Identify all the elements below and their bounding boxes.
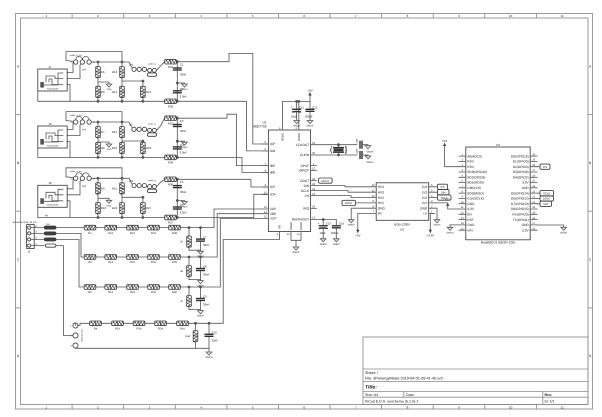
svg-text:solder_jp_3w: solder_jp_3w (70, 54, 82, 57)
svg-text:R22: R22 (112, 206, 118, 210)
svg-text:BOB-12009: BOB-12009 (394, 222, 410, 226)
svg-text:Title:: Title: (365, 385, 377, 391)
svg-text:R15: R15 (112, 130, 118, 134)
svg-text:R39: R39 (172, 261, 177, 264)
svg-text:13: 13 (264, 206, 267, 209)
svg-text:VBP: VBP (270, 212, 276, 216)
svg-text:DIN: DIN (441, 190, 446, 194)
solder jumper JP7 (132, 127, 147, 131)
svg-text:GND: GND (107, 88, 112, 91)
svg-text:ICP: ICP (270, 185, 275, 189)
svg-text:R27: R27 (146, 206, 152, 210)
svg-text:DIN: DIN (543, 202, 548, 206)
svg-text:8: 8 (407, 14, 409, 18)
svg-text:1: 1 (70, 325, 72, 328)
svg-text:VCP: VCP (270, 217, 277, 221)
junction dots ladder row2 (188, 256, 191, 259)
wire U3 left gnd (450, 225, 459, 227)
connector J2 screw terminal (27, 225, 35, 249)
svg-text:C13: C13 (326, 222, 332, 226)
gnda ladder row3 (197, 311, 204, 318)
capacitor C15 22pF (360, 141, 362, 149)
svg-text:DOUT: DOUT (543, 197, 551, 201)
svg-text:3.3nF: 3.3nF (180, 151, 187, 155)
connector J6 (38, 185, 67, 207)
svg-text:21: 21 (312, 193, 315, 196)
svg-text:20: 20 (312, 152, 315, 155)
wire CS U1 to U2 (317, 196, 371, 198)
svg-text:RSV: RSV (467, 160, 474, 164)
resistor R27 (141, 203, 146, 215)
resistor R13 (105, 285, 117, 290)
svg-text:IRQ: IRQ (303, 207, 309, 211)
solder jumper JP6 (74, 173, 92, 181)
wire bead3 to ladder row3 (56, 239, 84, 287)
svg-text:R32: R32 (168, 121, 174, 125)
resistor R41 (177, 321, 189, 326)
svg-text:3: 3 (70, 345, 72, 348)
gnda under C12 (309, 112, 311, 120)
svg-text:AGND: AGND (289, 222, 293, 230)
svg-text:33nF: 33nF (203, 303, 210, 307)
svg-text:C5: C5 (180, 180, 184, 184)
svg-text:R1: R1 (88, 232, 92, 235)
ic U1 bottom pins VN AGND DGND (277, 232, 301, 237)
resistor R44 (193, 331, 198, 343)
resistor R25 (141, 86, 146, 98)
svg-text:2: 2 (97, 14, 99, 18)
svg-text:AudioJack3: AudioJack3 (47, 144, 59, 147)
border column ticks and numbers top/bottom (72, 14, 536, 410)
svg-text:4: 4 (277, 233, 279, 236)
svg-text:D0(GPIO16): D0(GPIO16) (511, 154, 529, 158)
gnd arrow block1 (106, 84, 112, 91)
wire block3 jumper link (136, 186, 148, 187)
wire DVDD drop (298, 101, 300, 126)
net tag DOUT at U1 (319, 178, 333, 183)
wire block2 filter cap column (176, 118, 178, 141)
svg-text:HV3: HV3 (378, 190, 384, 194)
svg-text:16MHz: 16MHz (345, 145, 348, 153)
svg-text:11: 11 (561, 14, 564, 18)
wire block1 jack sleeve to rail (37, 91, 39, 101)
solder jumper JP2 (74, 56, 92, 64)
junction dots ladder row1 (188, 226, 191, 229)
resistor R15 (120, 127, 125, 139)
svg-text:solder_jp_3w: solder_jp_3w (70, 114, 82, 117)
svg-text:A0(ADC0): A0(ADC0) (467, 154, 482, 158)
svg-text:24: 24 (312, 178, 315, 181)
svg-text:VN: VN (278, 225, 282, 229)
svg-text:2: 2 (70, 335, 72, 338)
ic U2 BOB-12009 body (376, 183, 429, 221)
svg-text:R37: R37 (168, 221, 174, 225)
svg-text:RST: RST (467, 218, 473, 222)
net tag CS at U3 (537, 166, 540, 168)
svg-text:R2: R2 (88, 261, 92, 264)
svg-text:Size: A4: Size: A4 (365, 393, 378, 397)
resistor R2 (84, 255, 96, 260)
svg-text:DGND: DGND (299, 222, 303, 230)
wire ladder row1 to gnda (189, 247, 201, 250)
svg-text:CS: CS (441, 185, 445, 189)
resistor R31 (165, 59, 177, 64)
svg-text:J2: J2 (28, 249, 31, 253)
wire block1 gnda tap (177, 83, 184, 84)
resistor R8 (96, 142, 101, 154)
gnda right below U3 (560, 227, 567, 234)
wire block3 top rail (89, 178, 132, 183)
svg-text:C7: C7 (203, 235, 207, 239)
net tag DIN at U3 (537, 203, 540, 205)
gnda under C14 (333, 239, 340, 246)
wire IAN net from block1 bottom (177, 101, 268, 151)
svg-text:GND: GND (107, 204, 112, 207)
svg-text:LV2: LV2 (422, 196, 428, 200)
svg-text:R4: R4 (94, 328, 98, 331)
wire block2 jumper link (136, 129, 148, 130)
wire SCLK U1 to U2 (317, 191, 371, 193)
gnda ladder row2 (197, 281, 204, 288)
svg-text:J5: J5 (48, 122, 52, 126)
svg-text:R40: R40 (172, 291, 177, 294)
svg-text:DOUT: DOUT (321, 179, 329, 183)
svg-text:10: 10 (509, 14, 513, 18)
gnda block2 (181, 142, 188, 149)
svg-text:Rev:: Rev: (545, 393, 553, 397)
ic U3 right pins (511, 153, 537, 232)
wire block3 jumper JP loop (66, 168, 122, 179)
svg-text:C10: C10 (212, 331, 218, 335)
wire VCP to ladder row3 (220, 219, 262, 288)
wire neutral row4 (75, 324, 77, 326)
wire C14 stem (335, 220, 337, 226)
svg-text:AudioJack3: AudioJack3 (47, 204, 59, 207)
svg-text:File: 3PenergyMeter-2019-04-01: File: 3PenergyMeter-2019-04-01-09-41-40.… (365, 377, 443, 381)
junction dots ladder row3 (188, 286, 191, 289)
svg-text:R22: R22 (130, 261, 135, 264)
wire block3 gnda tap (177, 201, 184, 202)
capacitor C12 (306, 109, 315, 111)
svg-text:3: 3 (93, 177, 95, 180)
gnda under C11 (296, 112, 298, 120)
svg-text:10: 10 (264, 192, 267, 195)
svg-text:100nF: 100nF (305, 115, 313, 119)
svg-text:19: 19 (312, 142, 315, 145)
svg-text:SCLK: SCLK (543, 191, 550, 195)
resistor R10 (96, 203, 101, 215)
svg-text:GND: GND (522, 186, 530, 190)
svg-text:HV4: HV4 (378, 185, 384, 189)
svg-text:+: + (291, 105, 293, 109)
wire C13 stem (322, 220, 324, 226)
ferrite bead FB3 (44, 238, 56, 241)
svg-text:JP8: JP8 (129, 180, 134, 183)
resistor R22 (120, 203, 125, 215)
svg-text:+3V3: +3V3 (443, 198, 450, 202)
wire U2 LV1 to +3V3 node (435, 202, 448, 204)
svg-text:CLKOUT: CLKOUT (296, 143, 309, 147)
ic U3 NodeMCU body (466, 147, 530, 240)
net tag DIN at U2 (438, 190, 450, 195)
svg-text:6: 6 (303, 14, 305, 18)
resistor R13 (120, 67, 125, 79)
wire C13 to gnda (322, 229, 324, 239)
gnd arrow block3 (106, 200, 112, 207)
ic U1 ADE7758 body (268, 130, 310, 232)
wire bead2 to ladder row2 (56, 233, 84, 257)
svg-text:R31: R31 (151, 232, 156, 235)
resistor R7 (96, 127, 101, 139)
wire +5V rail above U1 (283, 93, 311, 127)
svg-text:AVDD: AVDD (281, 133, 285, 141)
svg-text:3.3V: 3.3V (467, 207, 474, 211)
svg-text:JP6: JP6 (82, 185, 87, 188)
wire IBN net from block2 bottom (177, 157, 268, 172)
svg-text:CMD(CS): CMD(CS) (467, 186, 481, 190)
svg-text:GNDA: GNDA (367, 161, 374, 164)
svg-text:C: C (589, 258, 592, 262)
wire C8 column (200, 257, 202, 269)
svg-text:R25: R25 (146, 90, 152, 94)
svg-text:APCF: APCF (301, 164, 310, 168)
capacitor C2 (173, 91, 182, 93)
svg-text:R26: R26 (146, 146, 152, 150)
power +3.3V under U2 (426, 230, 434, 238)
wire block1 divider mid taps (98, 82, 109, 84)
svg-text:VARCF: VARCF (299, 169, 310, 173)
svg-text:R7: R7 (101, 130, 105, 134)
gnda left of U2 (348, 220, 355, 227)
svg-text:SCLK: SCLK (301, 189, 310, 193)
svg-text:U3: U3 (496, 143, 500, 147)
svg-text:GNDA: GNDA (434, 224, 441, 227)
svg-text:11: 11 (372, 189, 375, 192)
svg-text:LV1: LV1 (422, 201, 428, 205)
svg-text:ICN: ICN (270, 193, 276, 197)
svg-text:GND: GND (467, 202, 475, 206)
svg-text:R6: R6 (101, 90, 105, 94)
svg-text:solder_jp_3w: solder_jp_3w (70, 170, 82, 173)
capacitor C7 (196, 239, 205, 241)
net tag SCLK at U2 (438, 195, 452, 200)
wire U1 gnd stem (295, 240, 297, 247)
wire CLKOUT to crystal (317, 144, 357, 146)
wire row4 bottoms to rail (195, 342, 197, 349)
resistor R23 (127, 285, 139, 290)
svg-text:GND: GND (420, 206, 428, 210)
svg-text:R34: R34 (168, 161, 174, 165)
svg-text:R13: R13 (112, 70, 118, 74)
svg-text:33nF: 33nF (180, 72, 187, 76)
wire C16 to gnda (362, 154, 368, 157)
svg-text:D5(GPIO14): D5(GPIO14) (511, 191, 529, 195)
resistor R12 (105, 255, 117, 260)
svg-text:C9: C9 (203, 295, 207, 299)
svg-text:A: A (589, 64, 592, 68)
resistor R38 (169, 225, 181, 230)
wire U2 gnd right (435, 208, 437, 220)
svg-text:C11: C11 (299, 105, 304, 109)
resistor R4 (90, 321, 102, 326)
resistor R31 (148, 225, 160, 230)
resistor R36 (165, 177, 177, 182)
svg-text:B: B (589, 161, 591, 165)
svg-text:3.3nF: 3.3nF (180, 211, 187, 215)
svg-text:R24: R24 (137, 328, 142, 331)
svg-text:R3: R3 (88, 291, 92, 294)
resistor R47 (187, 296, 192, 308)
wire fuse to neutral jumper (56, 246, 73, 336)
svg-text:10: 10 (372, 195, 375, 198)
svg-text:IBP: IBP (270, 164, 275, 168)
svg-text:3: 3 (149, 14, 151, 18)
svg-text:GNDA: GNDA (293, 251, 300, 254)
capacitor C16 22pF (360, 151, 362, 159)
junction dots row4 (194, 322, 197, 325)
wire CLKIN to crystal (317, 154, 357, 156)
gnda under C13 (320, 239, 327, 246)
svg-text:R14: R14 (112, 90, 118, 94)
wire DIN U1 to U2 (317, 186, 371, 187)
svg-text:GND: GND (522, 223, 530, 227)
wire C10 column (208, 323, 210, 334)
svg-text:C8: C8 (203, 265, 207, 269)
svg-text:100nF: 100nF (331, 231, 339, 235)
solder jumper block3 second (147, 185, 156, 193)
svg-text:SD3(GPIO10): SD3(GPIO10) (467, 170, 487, 174)
svg-text:C: C (17, 258, 20, 262)
svg-text:CLKIN: CLKIN (300, 153, 310, 157)
svg-text:GNDA: GNDA (181, 146, 188, 149)
capacitor C4 (173, 147, 182, 149)
svg-text:JP5: JP5 (129, 64, 134, 67)
wire C7 column (200, 228, 202, 240)
capacitor C5 (173, 186, 182, 188)
svg-text:D4(GPIO2): D4(GPIO2) (513, 176, 529, 180)
svg-text:R31: R31 (168, 65, 174, 69)
svg-text:DIN: DIN (304, 184, 310, 188)
resistor R39 (169, 255, 181, 260)
ic U2 right pins (420, 184, 435, 216)
wire +3V3 to U3 3.3V pin (448, 203, 459, 209)
svg-text:GNDA: GNDA (206, 356, 213, 359)
svg-text:+5V: +5V (307, 88, 312, 92)
wire block1 filter cap column (176, 62, 178, 83)
resistor R45 (187, 236, 192, 248)
svg-text:C14: C14 (339, 222, 345, 226)
net tag DOUT at U3 (537, 198, 540, 200)
svg-text:R11: R11 (108, 232, 113, 235)
svg-text:ADE7758: ADE7758 (253, 124, 267, 128)
resistor R5 (96, 67, 101, 79)
resistor R34 (165, 155, 177, 160)
solder jumper JP1 vertical (73, 323, 78, 348)
svg-text:R36: R36 (168, 183, 174, 187)
capacitor C9 (196, 299, 205, 301)
ic U1 top pins AVDD DVDD (279, 126, 299, 130)
gnda right of C15 (365, 146, 371, 149)
resistor R26 (141, 142, 146, 154)
svg-text:GNDA: GNDA (197, 315, 204, 318)
net tag DOUT at U2 HV1 (342, 200, 356, 205)
svg-text:GND: GND (467, 223, 475, 227)
resistor R46 (187, 266, 192, 278)
svg-text:EN: EN (467, 213, 472, 217)
svg-text:R34: R34 (158, 328, 163, 331)
svg-text:15: 15 (264, 216, 267, 219)
ic U3 left pins (459, 153, 487, 232)
svg-text:LV4: LV4 (422, 185, 428, 189)
svg-text:R21: R21 (130, 232, 135, 235)
svg-text:IAN: IAN (270, 149, 276, 153)
wire ICN net from block3 bottom (177, 194, 268, 217)
resistor R11 (105, 225, 117, 230)
svg-text:9: 9 (458, 14, 460, 18)
svg-text:R9: R9 (101, 186, 105, 190)
svg-text:JP7: JP7 (129, 124, 134, 127)
wire block2 bottom rail (38, 156, 178, 158)
wire block2 R dividers verticals (97, 122, 99, 157)
svg-text:R38: R38 (172, 232, 177, 235)
svg-text:GNDA: GNDA (447, 231, 454, 234)
svg-text:KiCad E.D.A. eeschema (5.1.6): KiCad E.D.A. eeschema (5.1.6)-1 (365, 399, 418, 403)
connector J2 pins (28, 225, 45, 247)
solder jumper block2 second (147, 128, 156, 136)
svg-text:22pF: 22pF (356, 148, 359, 154)
wire C15 to gnda (362, 144, 368, 147)
svg-text:solder_jp: solder_jp (148, 179, 156, 182)
gnda block3 (181, 202, 188, 209)
svg-text:AudioJack3: AudioJack3 (47, 87, 59, 90)
wire ladder row2 to gnda (189, 277, 201, 280)
gnd arrow block2 (106, 144, 112, 151)
svg-text:HV2: HV2 (378, 196, 384, 200)
svg-text:R32: R32 (151, 261, 156, 264)
svg-text:D: D (17, 354, 20, 358)
wire ladder row2 (84, 256, 217, 258)
svg-text:+5V: +5V (442, 139, 447, 143)
svg-text:4: 4 (200, 14, 202, 18)
svg-text:P6: P6 (45, 214, 49, 217)
capacitor C1 (173, 68, 182, 70)
gnda right of C16 (365, 156, 371, 159)
gnda right of U2 (434, 220, 441, 227)
svg-text:solder_jp: solder_jp (148, 123, 156, 126)
svg-text:3.3V: 3.3V (522, 228, 529, 232)
wire ladder row3 (84, 286, 220, 288)
svg-text:CS: CS (543, 165, 547, 169)
junction dots block2 (97, 121, 100, 124)
svg-text:D2(GPIO4): D2(GPIO4) (513, 165, 529, 169)
svg-text:3.3V: 3.3V (522, 181, 529, 185)
svg-text:R8: R8 (101, 146, 105, 150)
svg-text:46: 46 (180, 270, 183, 273)
svg-text:R44: R44 (185, 335, 190, 338)
title block row lines (363, 369, 588, 405)
resistor R14 (120, 86, 125, 98)
svg-text:D8(GPIO15): D8(GPIO15) (511, 207, 529, 211)
svg-text:1: 1 (45, 14, 47, 18)
svg-text:D6(GPIO12): D6(GPIO12) (511, 197, 529, 201)
svg-text:5: 5 (252, 14, 254, 18)
wire VAP to ladder row1 (214, 209, 262, 228)
svg-text:GNDA: GNDA (560, 231, 567, 234)
svg-text:11: 11 (297, 233, 300, 236)
svg-text:16: 16 (287, 233, 290, 236)
wire U1 agnd dgnd join (223, 236, 279, 323)
svg-text:3.3nF: 3.3nF (180, 95, 187, 99)
